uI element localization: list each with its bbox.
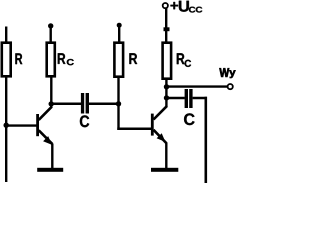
- junction dot base feed T2: [116, 101, 121, 106]
- resistor R2: [114, 25, 123, 76]
- label R (R2): [129, 53, 137, 64]
- wire Rc1 to collector node: [50, 77, 52, 108]
- junction dot collector T1 / C1: [49, 101, 54, 106]
- node dot Rc1 top: [48, 23, 53, 28]
- label +Ucc: [171, 1, 203, 13]
- wire base T2: [117, 128, 151, 131]
- label C (C1): [80, 115, 89, 127]
- supply terminal +Ucc circle: [163, 3, 168, 8]
- wire Rc2 to collector node: [165, 79, 167, 107]
- resistor R1: [2, 27, 11, 77]
- wire output Wy: [167, 85, 229, 87]
- ground T1: [37, 168, 63, 172]
- wire supply feed vertical: [165, 8, 167, 43]
- wire R1 lead down left rail: [5, 77, 7, 183]
- capacitor C2: [167, 89, 208, 108]
- resistor Rc1: [47, 26, 55, 76]
- wire emitter T1: [51, 144, 53, 169]
- junction dot output tee: [164, 84, 169, 89]
- capacitor C1: [51, 93, 119, 114]
- transistor T2: [151, 106, 167, 144]
- label C (C2): [184, 113, 195, 125]
- wire C2 down lead: [205, 97, 208, 183]
- node dot R2 top: [117, 23, 122, 28]
- junction dot on supply feed: [164, 27, 170, 31]
- output terminal circle: [228, 84, 233, 89]
- label Rc (Rc2): [177, 53, 191, 67]
- wire R2 lead down: [117, 77, 119, 131]
- transistor T1: [36, 107, 52, 145]
- wire emitter T2: [165, 143, 167, 169]
- ground T2: [151, 168, 178, 172]
- label Wy: [219, 68, 235, 78]
- resistor Rc2: [163, 43, 172, 79]
- junction node base T1: [3, 123, 8, 128]
- label R (R1): [15, 53, 22, 64]
- wire base T1: [6, 124, 36, 126]
- junction dot C2 tee: [164, 95, 169, 100]
- label Rc (Rc1): [58, 53, 74, 65]
